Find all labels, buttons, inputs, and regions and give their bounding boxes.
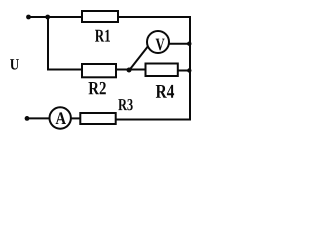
wire R4 to right bus [178,70,190,72]
wire ammeter to R3 [71,117,81,119]
label R4 [156,85,174,98]
terminal dot (bottom supply lead) [25,116,30,121]
resistor R3 [80,113,115,124]
resistor R1 [82,11,118,22]
resistor R4 [146,64,178,77]
label R3 [118,99,132,110]
wire diagonal to voltmeter [129,46,148,70]
wire R1 to top-right corner and right bus [118,17,190,120]
terminal dot (top supply lead) [26,15,31,20]
voltmeter V [147,31,169,53]
node junction between R2 and R4 [127,68,132,73]
node junction voltmeter at bus [187,42,191,46]
ammeter A [50,107,71,128]
resistor R2 [82,64,116,77]
wire voltmeter to right bus [169,43,190,45]
label U (supply voltage) [10,59,19,70]
wire bottom terminal to ammeter [27,117,50,119]
wire R3 to bottom-right corner [116,119,191,121]
label R1 [95,30,110,42]
wire top terminal to R1 [29,16,83,18]
node junction R4 at bus [187,68,191,72]
node junction top-left [45,15,50,20]
wire left branch down to middle row [48,17,82,70]
wire R2 to R4 [116,69,146,71]
label R2 [89,82,106,94]
